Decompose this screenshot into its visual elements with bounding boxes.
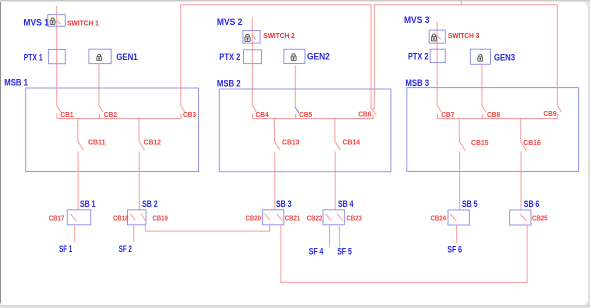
transformer PTX 1 box bbox=[49, 50, 66, 64]
switch MVS 3 box bbox=[429, 30, 445, 43]
bus MSB3 bbox=[437, 118, 557, 120]
svg-text:CB12: CB12 bbox=[144, 138, 162, 147]
padlock icon GEN1 bbox=[97, 54, 102, 60]
svg-text:SB 2: SB 2 bbox=[142, 199, 158, 210]
svg-text:CB2: CB2 bbox=[104, 110, 117, 119]
svg-text:CB25: CB25 bbox=[532, 214, 548, 223]
padlock icon GEN2 bbox=[291, 54, 296, 61]
svg-text:MVS 2: MVS 2 bbox=[217, 17, 242, 28]
svg-text:CB23: CB23 bbox=[346, 214, 362, 223]
substation SB 6 box bbox=[510, 210, 531, 225]
switchboard MSB 2 box bbox=[219, 89, 391, 172]
substation SB 4 box bbox=[323, 210, 344, 225]
padlock icon MVS 2 bbox=[245, 34, 250, 41]
svg-text:SF 5: SF 5 bbox=[337, 247, 352, 258]
svg-text:CB20: CB20 bbox=[246, 214, 262, 223]
breaker CB19 blade bbox=[141, 214, 146, 221]
svg-text:CB5: CB5 bbox=[299, 110, 312, 119]
wire SB2 to SB3 link bbox=[145, 225, 269, 231]
svg-text:SWITCH 3: SWITCH 3 bbox=[448, 31, 479, 40]
substation SB 2 box bbox=[128, 210, 147, 225]
substation SB 1 box bbox=[67, 210, 90, 225]
svg-text:GEN3: GEN3 bbox=[494, 53, 515, 64]
svg-text:CB18: CB18 bbox=[113, 214, 129, 223]
svg-text:CB19: CB19 bbox=[152, 214, 168, 223]
wire SB4 to SF5 bbox=[338, 225, 340, 247]
svg-text:MSB 2: MSB 2 bbox=[217, 79, 241, 90]
breaker CB25 blade bbox=[520, 214, 526, 221]
svg-text:CB8: CB8 bbox=[487, 110, 500, 119]
switchboard MSB 1 box bbox=[26, 88, 199, 172]
wire SB4 to SF4 bbox=[329, 225, 331, 247]
svg-text:PTX 1: PTX 1 bbox=[24, 53, 44, 64]
breaker CB7 bbox=[437, 106, 441, 119]
breaker CB9 bbox=[557, 106, 561, 119]
svg-text:SB 3: SB 3 bbox=[276, 199, 292, 210]
wire MVS2 incoming feeder bbox=[251, 18, 253, 106]
padlock icon GEN3 bbox=[478, 55, 483, 62]
breaker CB16 bbox=[521, 119, 527, 211]
transformer PTX 2 box bbox=[244, 50, 262, 64]
wire SB5 to SF6 bbox=[456, 225, 458, 243]
switch MVS 2 box bbox=[243, 31, 260, 44]
svg-text:MSB 1: MSB 1 bbox=[4, 77, 28, 88]
svg-text:CB4: CB4 bbox=[256, 110, 270, 119]
svg-text:CB7: CB7 bbox=[441, 110, 454, 119]
wire MVS1 incoming feeder bbox=[56, 6, 58, 106]
generator GEN2 box bbox=[284, 49, 305, 63]
substation SB 3 box bbox=[262, 210, 283, 225]
breaker CB15 bbox=[459, 119, 465, 211]
padlock icon MVS 3 bbox=[431, 34, 436, 41]
svg-text:CB17: CB17 bbox=[49, 214, 65, 223]
svg-text:CB14: CB14 bbox=[343, 138, 361, 147]
breaker CB22 blade bbox=[325, 214, 331, 221]
wire tie line 2 top stub bbox=[460, 0, 462, 5]
breaker CB21 blade bbox=[277, 214, 283, 221]
svg-text:CB22: CB22 bbox=[307, 214, 323, 223]
breaker CB14 bbox=[335, 119, 341, 210]
transformer PTX 3 box bbox=[430, 49, 445, 62]
svg-text:SF 6: SF 6 bbox=[447, 245, 462, 256]
breaker CB24 blade bbox=[450, 214, 456, 221]
svg-text:GEN2: GEN2 bbox=[307, 52, 330, 63]
svg-text:MVS 1: MVS 1 bbox=[23, 17, 49, 28]
svg-text:CB24: CB24 bbox=[431, 214, 447, 223]
svg-text:SWITCH 1: SWITCH 1 bbox=[67, 19, 99, 28]
svg-text:CB16: CB16 bbox=[523, 138, 541, 147]
wire tie line 2 CB6 to CB9 bbox=[374, 5, 557, 109]
svg-text:CB11: CB11 bbox=[88, 138, 106, 147]
svg-text:SF 2: SF 2 bbox=[119, 244, 132, 255]
svg-text:PTX 2: PTX 2 bbox=[408, 51, 429, 62]
breaker CB17 blade bbox=[71, 214, 77, 221]
breaker CB12 bbox=[139, 119, 145, 210]
generator GEN1 box bbox=[89, 49, 111, 63]
breaker CB3 bbox=[181, 106, 185, 119]
svg-text:CB6: CB6 bbox=[358, 110, 371, 119]
svg-text:CB1: CB1 bbox=[60, 110, 73, 119]
breaker CB1 bbox=[57, 106, 61, 119]
svg-text:SF 4: SF 4 bbox=[309, 247, 324, 258]
breaker CB8 bbox=[482, 106, 486, 119]
svg-text:MVS 3: MVS 3 bbox=[404, 15, 429, 26]
breaker CB5 closed blade bbox=[295, 108, 299, 119]
switchboard MSB 3 box bbox=[407, 88, 579, 172]
switch MVS 1 box bbox=[48, 15, 66, 27]
breaker CB18 blade bbox=[130, 214, 135, 221]
svg-text:PTX 2: PTX 2 bbox=[219, 52, 240, 63]
svg-text:CB13: CB13 bbox=[282, 138, 300, 147]
svg-text:CB3: CB3 bbox=[183, 110, 196, 119]
substation SB 5 box bbox=[448, 210, 469, 225]
switch blade MVS 3 bbox=[437, 35, 441, 39]
svg-text:SB 4: SB 4 bbox=[338, 199, 354, 210]
wire GEN3 feeder bbox=[481, 64, 483, 105]
breaker CB20 blade bbox=[264, 214, 270, 221]
wire SB1 to SF1 bbox=[74, 225, 76, 242]
breaker CB11 bbox=[78, 119, 84, 210]
svg-text:SB 1: SB 1 bbox=[80, 199, 96, 210]
padlock icon MVS 1 bbox=[50, 18, 55, 25]
svg-text:CB21: CB21 bbox=[285, 214, 301, 223]
svg-text:SB 6: SB 6 bbox=[524, 199, 540, 210]
svg-text:SB 5: SB 5 bbox=[462, 199, 478, 210]
switch blade MVS 1 bbox=[57, 20, 61, 24]
switch blade MVS 2 bbox=[252, 35, 256, 39]
bus MSB2 bbox=[252, 118, 374, 120]
breaker CB6 bbox=[371, 109, 377, 119]
breaker CB23 blade bbox=[337, 214, 343, 221]
wire SB2 to SF2 bbox=[133, 225, 135, 242]
wire MVS3 incoming feeder bbox=[436, 21, 438, 105]
bus MSB1 bbox=[57, 118, 181, 120]
wire GEN2 feeder bbox=[294, 66, 296, 108]
svg-text:SF 1: SF 1 bbox=[59, 244, 73, 255]
svg-text:SWITCH 2: SWITCH 2 bbox=[263, 31, 295, 40]
wire GEN1 feeder bbox=[98, 64, 100, 106]
svg-text:CB9: CB9 bbox=[543, 109, 556, 118]
breaker CB13 bbox=[275, 119, 281, 210]
breaker CB2 bbox=[99, 106, 103, 119]
wire tie line 1 CB3 to CB6 bbox=[181, 5, 371, 109]
svg-text:CB15: CB15 bbox=[471, 138, 489, 147]
wire SB3 to SB6 link bbox=[281, 225, 527, 283]
breaker CB4 bbox=[252, 106, 256, 119]
svg-text:GEN1: GEN1 bbox=[116, 52, 138, 63]
generator GEN3 box bbox=[470, 49, 490, 64]
